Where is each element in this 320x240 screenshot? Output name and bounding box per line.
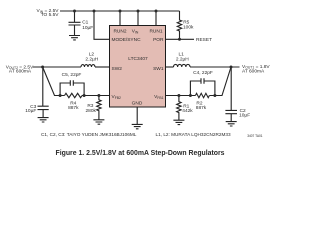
svg-text:C5, 22pF: C5, 22pF — [62, 72, 82, 78]
svg-text:GND: GND — [132, 101, 143, 107]
svg-text:RUN1: RUN1 — [149, 29, 162, 35]
svg-text:2.2µH: 2.2µH — [85, 56, 98, 62]
svg-text:10µF: 10µF — [239, 113, 250, 119]
svg-text:280k: 280k — [85, 108, 96, 114]
svg-text:10µF: 10µF — [25, 108, 36, 114]
svg-text:RUN2: RUN2 — [113, 29, 126, 35]
svg-text:Figure 1. 2.5V/1.8V at 600mA S: Figure 1. 2.5V/1.8V at 600mA Step-Down R… — [56, 150, 225, 157]
svg-text:2.2µH: 2.2µH — [176, 56, 189, 62]
svg-text:887k: 887k — [68, 105, 79, 111]
svg-text:VIN: VIN — [132, 29, 139, 35]
svg-text:10µF: 10µF — [82, 25, 93, 31]
svg-text:100k: 100k — [183, 24, 194, 30]
svg-text:VFB1: VFB1 — [154, 94, 164, 100]
svg-text:C1: C1 — [82, 19, 88, 25]
svg-text:C1, C2, C3: TAIYO YUDEN JMK316: C1, C2, C3: TAIYO YUDEN JMK316BJ106ML — [41, 132, 137, 137]
svg-text:C4, 22pF: C4, 22pF — [193, 70, 213, 76]
svg-text:3407 TA01: 3407 TA01 — [247, 134, 263, 138]
svg-text:POR: POR — [153, 37, 164, 43]
svg-text:RESET: RESET — [196, 37, 212, 43]
svg-text:VFB2: VFB2 — [112, 94, 122, 100]
svg-text:887k: 887k — [196, 105, 207, 111]
svg-text:SW1: SW1 — [153, 66, 164, 72]
svg-text:L1, L2: MURATA LQH32CN2R2M33: L1, L2: MURATA LQH32CN2R2M33 — [156, 132, 232, 137]
svg-text:SW2: SW2 — [112, 66, 123, 72]
svg-text:MODE/SYNC: MODE/SYNC — [112, 37, 142, 43]
svg-text:TO 5.5V: TO 5.5V — [41, 12, 60, 18]
svg-text:442k: 442k — [182, 108, 193, 114]
svg-text:AT 600mA: AT 600mA — [242, 69, 265, 75]
svg-text:LTC3407: LTC3407 — [128, 56, 148, 62]
svg-text:AT 600mA: AT 600mA — [9, 69, 32, 75]
